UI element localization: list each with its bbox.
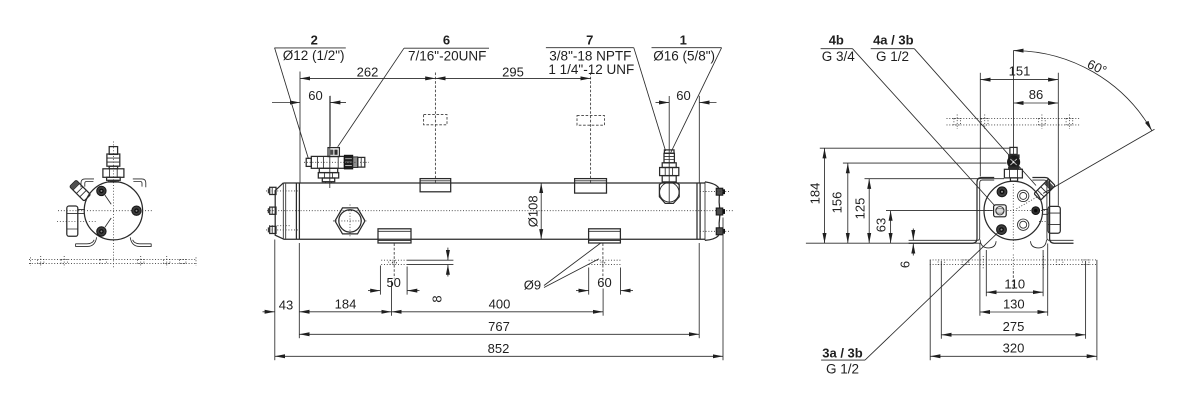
svg-text:8: 8 (430, 295, 445, 302)
60 deg radial line (1044, 129, 1155, 193)
foot left inner (909, 180, 995, 240)
left cap (275, 183, 283, 239)
centerline horizontal (985, 210, 1046, 212)
end view B shell circle (984, 181, 1043, 240)
valve body (311, 156, 344, 168)
vent valve base hex (1004, 169, 1022, 178)
foot clamp left (378, 229, 411, 243)
svg-text:63: 63 (874, 218, 889, 232)
barb rings (107, 154, 120, 166)
port left square socket (994, 205, 1007, 217)
fitting barb rings (664, 150, 674, 153)
svg-text:4a / 3b: 4a / 3b (873, 33, 914, 48)
hidden top rail strip (947, 118, 1081, 125)
svg-text:Ø12 (1/2"): Ø12 (1/2") (283, 48, 345, 63)
left cap bolt 1 (268, 187, 276, 194)
svg-text:6: 6 (443, 33, 450, 48)
right cap bolt 2 (716, 208, 725, 215)
svg-text:7/16"-20UNF: 7/16"-20UNF (408, 48, 486, 63)
svg-text:3/8"-18 NPTF: 3/8"-18 NPTF (549, 48, 631, 63)
dim 295 (435, 77, 590, 79)
right cap bolt 1 (716, 188, 725, 195)
ext lines 151/86 (979, 73, 981, 177)
leader 4a3b (914, 49, 1036, 186)
shell top line (283, 182, 705, 184)
left cap bolt 2 (268, 207, 276, 214)
svg-text:184: 184 (335, 296, 357, 311)
shell bottom line (283, 238, 705, 240)
svg-text:Ø16 (5/8"): Ø16 (5/8") (653, 48, 715, 63)
valve right barb (358, 157, 365, 167)
dim 86 (1014, 102, 1059, 104)
flange bolt bottom-left (97, 227, 106, 236)
svg-text:6: 6 (898, 261, 913, 268)
svg-text:G 1/2: G 1/2 (826, 362, 859, 377)
vent valve knob (1007, 155, 1020, 168)
leader 2 (275, 48, 309, 159)
dim 60 right (656, 102, 670, 104)
svg-text:7: 7 (586, 33, 593, 48)
svg-text:295: 295 (502, 65, 524, 80)
valve knob dark (344, 155, 353, 169)
foot plate left (section) (407, 260, 453, 264)
nut neck (1043, 209, 1048, 214)
centerline horizontal (58, 210, 152, 212)
hex sight glass boss (335, 208, 365, 234)
bolt radial marks (105, 195, 111, 227)
dim 125 (868, 179, 870, 244)
dim 130 (980, 311, 1048, 313)
boss 1 centerline (434, 73, 436, 184)
foot left outer (909, 178, 995, 244)
leader 1 (671, 48, 722, 153)
dim 50 (380, 266, 407, 295)
svg-text:320: 320 (1003, 341, 1025, 356)
flange bolt top-left (97, 186, 106, 195)
hose fitting item1 : centerline (668, 96, 670, 204)
45 deg fitting upper-right (1034, 179, 1055, 200)
svg-text:110: 110 (1004, 277, 1025, 292)
hose barb fitting on top: stem (109, 147, 117, 155)
vent valve neck (1008, 167, 1020, 170)
vertical dim baseline (806, 242, 981, 244)
foot right outer (1032, 178, 1073, 244)
ext line valve center (329, 96, 331, 147)
bottom ext lines (930, 260, 1097, 360)
leaders dia9 (544, 243, 601, 288)
svg-text:Ø108: Ø108 (526, 195, 541, 227)
foot plate right (hidden) (589, 260, 621, 264)
ext top 125 (865, 178, 1005, 180)
port upper-right (1018, 190, 1029, 201)
dim 110 (986, 291, 1043, 293)
svg-text:125: 125 (853, 198, 868, 220)
valve axis dotted (304, 161, 369, 163)
svg-text:G 3/4: G 3/4 (822, 49, 856, 64)
left cap hidden lines (266, 191, 300, 230)
ext 63 center (886, 210, 993, 212)
svg-text:G 1/2: G 1/2 (876, 49, 909, 64)
valve mid ring (353, 157, 358, 168)
svg-text:184: 184 (808, 183, 823, 205)
dim 275 (941, 334, 1085, 336)
right cap bolt 3 (716, 228, 725, 235)
svg-text:43: 43 (279, 297, 293, 312)
dim 63 (890, 211, 892, 244)
leader 6 (338, 48, 404, 147)
right cap hidden lines (700, 192, 730, 232)
dim 60 foot (589, 268, 621, 295)
port right bolt (1032, 207, 1040, 215)
fitting neck (662, 176, 676, 182)
nut neck (78, 210, 85, 214)
left port hex nut (67, 206, 78, 236)
foot hook top-left (81, 179, 94, 187)
foot left bottom curl (980, 240, 996, 248)
dim 8 (447, 248, 449, 261)
port upper-left (997, 187, 1007, 197)
port boss 1 (420, 179, 451, 192)
dim 60 left (272, 102, 300, 104)
svg-text:60: 60 (676, 88, 690, 103)
port bottom-center (1018, 219, 1029, 230)
dim 43 (263, 311, 275, 313)
svg-text:275: 275 (1003, 319, 1025, 334)
svg-text:4b: 4b (829, 33, 844, 48)
foot hook top-right (133, 179, 146, 187)
svg-text:400: 400 (489, 296, 511, 311)
foot hook bottom-right (130, 237, 151, 246)
dim 6 (912, 229, 914, 241)
hidden baseplate (930, 260, 1097, 265)
dim 156 (847, 163, 849, 243)
fitting ring (662, 163, 676, 168)
bottom ext lines (274, 240, 276, 361)
svg-text:852: 852 (488, 341, 510, 356)
centerline vertical (112, 142, 114, 269)
shut-off valve item2 : centerline (329, 96, 331, 188)
dim 262 (300, 77, 435, 79)
port bottom-left (997, 225, 1007, 235)
dim dia108 (540, 183, 542, 239)
end view A shell circle (84, 182, 142, 240)
dim 320 (930, 355, 1097, 357)
nut axis hidden line (57, 221, 97, 223)
ext top 184 (820, 147, 1010, 149)
leader 4b (853, 49, 996, 206)
ext top 156 (843, 162, 1007, 164)
leader 3a3b (865, 230, 1000, 360)
dim 852 (275, 355, 723, 357)
45 deg elbow fitting upper-left (70, 180, 91, 201)
boss 2 centerline (590, 73, 592, 184)
svg-text:50: 50 (386, 275, 400, 290)
shell axis centerline (267, 210, 733, 212)
strip marks (38, 260, 44, 264)
hidden boss A (424, 115, 447, 125)
svg-text:Ø9: Ø9 (524, 278, 541, 293)
ext line left shell end (299, 72, 301, 184)
dim 184 (824, 148, 826, 243)
hidden baseplate strip (29, 259, 197, 261)
leader 7 (634, 48, 666, 151)
nut axis hidden (1039, 221, 1050, 223)
right port hex nut (1048, 206, 1060, 233)
dim 400 (392, 311, 604, 313)
dim 151 (980, 79, 1058, 81)
svg-text:767: 767 (488, 319, 510, 334)
foot right bottom curl (1031, 240, 1047, 248)
svg-text:1: 1 (680, 33, 687, 48)
vent valve band (1008, 154, 1020, 158)
ext line right shell end top (698, 96, 700, 183)
fitting dome plug (659, 182, 679, 203)
svg-text:2: 2 (311, 33, 318, 48)
svg-text:151: 151 (1009, 64, 1031, 79)
foot right inner (1032, 180, 1073, 240)
centerline vertical (1012, 184, 1014, 251)
neck (109, 166, 117, 169)
svg-text:60: 60 (308, 88, 322, 103)
fitting hex nut (660, 168, 679, 176)
svg-text:156: 156 (830, 192, 845, 214)
svg-text:60: 60 (597, 275, 611, 290)
svg-text:3a / 3b: 3a / 3b (822, 345, 863, 360)
svg-text:130: 130 (1003, 296, 1025, 311)
dim 184 (299, 311, 391, 313)
foot clamp right (589, 229, 621, 243)
svg-text:1 1/4"-12 UNF: 1 1/4"-12 UNF (548, 62, 634, 77)
left tube sheet (296, 183, 299, 239)
hidden boss B (577, 116, 605, 126)
right tube sheet (697, 183, 700, 239)
right cap body line (704, 182, 706, 241)
svg-text:86: 86 (1029, 87, 1043, 102)
svg-text:262: 262 (357, 65, 379, 80)
foot hook bottom-left (76, 237, 97, 246)
left cap bolt 3 (268, 226, 276, 233)
hex nut (103, 169, 124, 178)
dim 767 (299, 333, 699, 335)
flange bolt right (132, 206, 141, 215)
valve lower nut (319, 168, 337, 172)
vent valve stem (1010, 147, 1017, 154)
valve top port (328, 148, 339, 157)
collar (107, 177, 121, 180)
vent valve lower neck (1010, 178, 1017, 181)
valve left tip (306, 158, 311, 166)
port boss 2 (575, 179, 607, 194)
right cap dished profile (705, 182, 720, 241)
60 deg arc (1013, 51, 1152, 131)
